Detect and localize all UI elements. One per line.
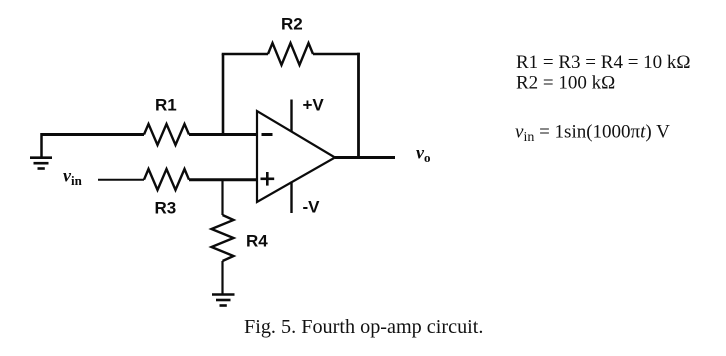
resistor R1 <box>144 124 189 145</box>
op-amp U1 triangle <box>257 111 335 202</box>
svg-text:R1 = R3 = R4 = 10 kΩ: R1 = R3 = R4 = 10 kΩ <box>516 52 691 73</box>
svg-text:R4: R4 <box>246 232 268 251</box>
wire: -V supply stub <box>290 182 292 214</box>
wire: feedback top left segment <box>222 53 268 56</box>
svg-text:vin = 1sin(1000πt) V: vin = 1sin(1000πt) V <box>515 122 670 146</box>
wire: feedback top right segment <box>313 53 360 56</box>
wire: R1 input wire left segment <box>41 133 144 136</box>
wire: vin to R3 <box>98 179 144 181</box>
wire: output <box>335 156 395 159</box>
ground (bottom) <box>212 295 235 306</box>
resistor R4 <box>212 215 234 261</box>
wire: +V supply stub <box>290 100 292 132</box>
resistor R2 <box>268 43 313 65</box>
op-amp inverting input marker (minus) <box>262 133 273 136</box>
svg-text:R2 = 100 kΩ: R2 = 100 kΩ <box>516 73 615 94</box>
wire: feedback left vertical <box>222 54 225 135</box>
resistor R3 <box>144 169 189 190</box>
ground (left) <box>30 158 52 169</box>
svg-text:Fig. 5. Fourth op-amp circuit.: Fig. 5. Fourth op-amp circuit. <box>244 316 483 338</box>
wire: R4 to ground <box>221 261 223 294</box>
svg-text:R1: R1 <box>155 96 177 115</box>
wire: left vertical to ground <box>40 133 43 157</box>
svg-text:R2: R2 <box>281 15 303 34</box>
wire: junction to R4 <box>221 180 223 215</box>
wire: R3 to op-amp non-inverting input <box>189 178 257 181</box>
svg-text:-V: -V <box>303 198 321 217</box>
op-amp non-inverting input marker (plus) <box>261 172 275 186</box>
wire: R1 to op-amp inverting input <box>189 133 257 136</box>
svg-text:+V: +V <box>303 96 325 115</box>
wire: feedback right vertical <box>357 53 360 158</box>
svg-text:R3: R3 <box>155 199 177 218</box>
